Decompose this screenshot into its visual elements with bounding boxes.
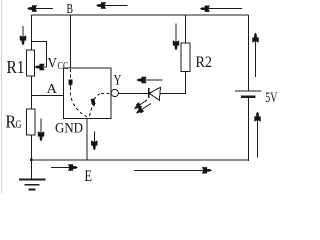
wire left rail upper (top rail to R1) [31, 15, 33, 50]
wire ground stem [31, 160, 33, 180]
svg-text:A: A [47, 82, 58, 97]
junction at left rail / bottom rail [30, 159, 33, 162]
current arrow beside R2 (pointing down) [175, 24, 177, 51]
wire IC GND pin to bottom rail [86, 119, 88, 161]
current arrow top-right (pointing left) [200, 8, 242, 10]
internal dashed current path 1 (from Vcc pin down to GND pin) [70, 69, 72, 78]
arrowhead of internal path 1 [69, 79, 73, 87]
ground symbol [19, 180, 46, 190]
current arrow above LED wire (pointing left) [137, 79, 163, 81]
rheostat wiper of R1 (arrow into body, tied up to rail) [32, 41, 47, 67]
current arrow bottom-right (pointing right) [134, 169, 212, 171]
svg-text:R2: R2 [196, 54, 213, 71]
resistor R2 body [181, 43, 190, 72]
current arrow above battery (pointing up) [255, 33, 257, 77]
LED D1 triangle [149, 87, 160, 100]
op-amp/gate IC U1 box [64, 68, 112, 119]
resistor RG body [27, 109, 36, 135]
battery BT1 positive plate [235, 90, 262, 92]
current arrow E (pointing right) [51, 167, 78, 169]
LED D1 emission arrow 2 [137, 104, 152, 114]
wire bottom rail [32, 159, 249, 161]
current arrow beside GND pin wire (pointing down) [93, 132, 95, 151]
svg-text:Y: Y [114, 72, 122, 88]
LED D1 emission arrow 1 [135, 100, 148, 109]
svg-text:B: B [67, 2, 74, 17]
svg-text:R1: R1 [7, 57, 25, 77]
current arrow above R1 (pointing down) [22, 26, 24, 45]
LED D1 cathode bar [148, 88, 150, 98]
svg-text:5V: 5V [265, 90, 277, 106]
output bubble of gate [111, 89, 118, 96]
resistor R1 body [27, 50, 35, 76]
internal dashed current path 2 (from output bubble down to GND pin) [100, 93, 110, 95]
wire left rail middle (R1 to RG) [31, 76, 33, 109]
wire right rail lower (battery - to bottom rail) [248, 98, 250, 161]
wire left rail lower (RG to bottom rail) [31, 135, 33, 160]
current arrow beside RG (pointing down) [40, 119, 42, 142]
svg-text:V: V [48, 56, 58, 72]
svg-text:E: E [85, 168, 93, 185]
svg-text:R: R [6, 112, 17, 132]
wire top rail [32, 14, 249, 16]
wire right rail upper (top rail to battery +) [248, 15, 250, 91]
wire R2 branch to top rail [185, 15, 187, 43]
wire node A to IC input pin [32, 95, 64, 97]
wire node B to IC Vcc pin [70, 15, 72, 68]
battery BT1 negative plate [241, 95, 256, 98]
wire Y output to LED [118, 93, 148, 95]
wire LED to R2 branch [160, 72, 186, 94]
current arrow top-left (pointing left) [28, 8, 54, 10]
current arrow top-middle (pointing left) [97, 5, 128, 7]
current arrow below battery (pointing up) [257, 112, 259, 158]
svg-text:G: G [16, 117, 22, 131]
arrowhead of internal path 2 [91, 98, 96, 106]
svg-text:GND: GND [55, 120, 83, 136]
